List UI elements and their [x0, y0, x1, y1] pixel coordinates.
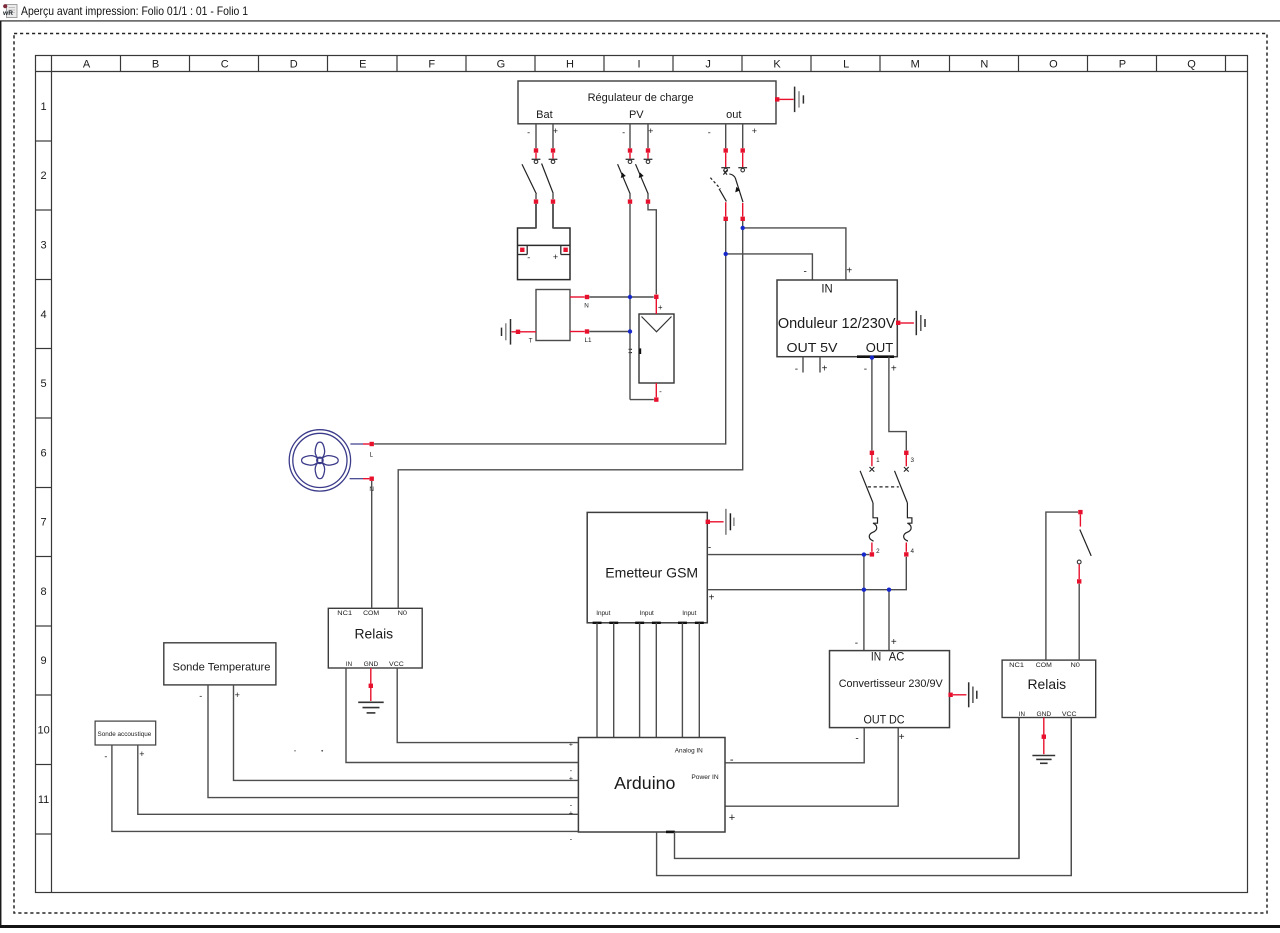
wire acoustic sensor - to Arduino	[104, 745, 578, 831]
svg-text:N: N	[980, 59, 988, 71]
wire Bat+ switch to battery	[552, 204, 554, 229]
inverter OUT 5V stubs	[795, 357, 828, 375]
svg-text:2: 2	[876, 548, 880, 555]
earth ground at regulator output	[775, 87, 803, 113]
svg-text:+: +	[553, 252, 558, 262]
row header numbers 1-11	[36, 101, 52, 834]
svg-text:-: -	[864, 364, 867, 375]
fan motor M1	[289, 430, 350, 491]
svg-text:2: 2	[41, 170, 47, 182]
switch Q1 pole Bat-	[522, 124, 540, 228]
svg-text:Arduino: Arduino	[614, 773, 675, 793]
svg-text:NC1: NC1	[337, 610, 352, 617]
svg-text:10: 10	[37, 725, 49, 737]
svg-text:COM: COM	[363, 610, 379, 617]
svg-text:+: +	[752, 126, 757, 136]
wire relay K2 VCC riser	[1070, 718, 1072, 876]
svg-text:Sonde Temperature: Sonde Temperature	[173, 661, 271, 673]
wire GSM- to breaker pole 2 and converter IN-	[708, 554, 869, 556]
inverter box Onduleur 12/230V	[777, 265, 897, 356]
junction out-	[724, 252, 728, 256]
svg-text:O: O	[1049, 59, 1058, 71]
svg-text:OUT 5V: OUT 5V	[787, 340, 838, 355]
svg-text:-: -	[804, 267, 807, 278]
svg-text:Input: Input	[640, 610, 654, 617]
svg-text:L: L	[843, 59, 849, 71]
column header letters A-Q	[83, 56, 1226, 72]
svg-text:-: -	[104, 752, 107, 762]
Arduino box	[578, 738, 725, 833]
svg-text:4: 4	[41, 309, 47, 321]
svg-text:K: K	[773, 59, 781, 71]
switch Q2 pole PV-	[618, 124, 635, 204]
charge regulator U1 box	[518, 81, 776, 124]
node N transformer output	[570, 295, 654, 310]
svg-text:NC1: NC1	[1009, 662, 1024, 669]
junction PV-/L1	[628, 329, 632, 333]
converter OUT- wire to Arduino	[725, 728, 864, 766]
svg-text:-: -	[527, 252, 530, 262]
svg-text:L1: L1	[584, 337, 592, 344]
svg-text:D: D	[290, 59, 298, 71]
svg-text:+: +	[235, 690, 240, 700]
breaker mechanical link (dashed)	[868, 486, 899, 488]
temperature sensor box	[164, 643, 276, 685]
svg-text:+: +	[729, 812, 735, 824]
svg-text:VCC: VCC	[1062, 711, 1077, 718]
cable marker ticks	[629, 348, 632, 350]
relay K1 box	[328, 608, 422, 668]
earth ground at GSM emitter	[706, 509, 734, 535]
svg-text:+: +	[648, 126, 653, 136]
svg-text:+: +	[709, 593, 715, 604]
svg-text:M: M	[911, 59, 920, 71]
svg-text:wR: wR	[2, 10, 13, 17]
svg-text:G: G	[497, 59, 506, 71]
svg-text:Aperçu avant impression: Folio: Aperçu avant impression: Folio 01/1 : 01…	[21, 4, 248, 18]
svg-text:GND: GND	[364, 661, 379, 668]
svg-text:F: F	[428, 59, 435, 71]
GSM emitter box	[587, 512, 707, 622]
svg-text:-: -	[795, 364, 798, 375]
svg-text:6: 6	[41, 447, 47, 459]
svg-text:-: -	[708, 127, 711, 137]
svg-text:1: 1	[41, 101, 47, 113]
svg-text:-: -	[730, 754, 734, 766]
stray dots	[294, 750, 296, 752]
fan terminal N	[350, 477, 375, 494]
svg-text:-: -	[199, 691, 202, 701]
svg-text:IN: IN	[346, 661, 352, 668]
wire relay K1 IN to Arduino	[346, 668, 578, 763]
svg-text:Relais: Relais	[1028, 676, 1067, 692]
svg-text:B: B	[152, 59, 159, 71]
svg-text:Convertisseur 230/9V: Convertisseur 230/9V	[839, 678, 943, 690]
svg-text:P: P	[1119, 59, 1126, 71]
svg-text:-: -	[570, 803, 573, 810]
svg-text:11: 11	[38, 794, 49, 806]
switch Q2 pole PV+	[636, 124, 657, 294]
wire out- net (to inverter IN- and fan L)	[374, 221, 726, 444]
svg-text:C: C	[221, 59, 229, 71]
svg-text:Sonde accoustique: Sonde accoustique	[98, 731, 152, 738]
svg-text:T: T	[529, 338, 533, 345]
svg-text:+: +	[891, 364, 897, 375]
svg-text:IN: IN	[1019, 711, 1025, 718]
svg-text:Emetteur GSM: Emetteur GSM	[605, 564, 698, 580]
svg-text:A: A	[83, 59, 91, 71]
svg-text:E: E	[359, 59, 366, 71]
svg-text:+: +	[822, 364, 828, 375]
svg-text:Onduleur 12/230V: Onduleur 12/230V	[778, 316, 896, 332]
wire temp sensor + to Arduino	[234, 685, 579, 781]
svg-text:-: -	[622, 128, 625, 138]
svg-text:+: +	[899, 732, 905, 743]
solar panel - terminal	[630, 383, 662, 402]
Arduino bottom wire to relay2 IN	[675, 718, 1020, 859]
svg-text:I: I	[637, 59, 640, 71]
transformer T1 box	[536, 290, 570, 341]
svg-text:-: -	[570, 768, 573, 775]
solar panel PV1	[639, 314, 674, 383]
app icon	[2, 4, 17, 17]
inverter OUT+ wire to breaker pole 3	[889, 357, 906, 451]
node L1 transformer output	[570, 329, 630, 344]
wire out+ net (to inverter IN+ and relay N0 riser)	[398, 221, 743, 608]
svg-text:Input: Input	[596, 610, 610, 617]
svg-text:4: 4	[911, 548, 915, 555]
solar panel + terminal	[654, 295, 663, 314]
converter box Convertisseur 230/9V	[830, 637, 950, 728]
inverter OUT- wire to breaker pole 1	[864, 355, 874, 450]
wire relay K2 IN riser	[1018, 718, 1020, 859]
svg-text:N0: N0	[398, 610, 408, 617]
svg-text:OUT: OUT	[866, 340, 893, 355]
wire relay K1 VCC to Arduino	[397, 668, 578, 743]
earth ground at converter	[948, 682, 976, 707]
circuit breaker 2P pole 1-2	[860, 451, 880, 557]
svg-text:Régulateur de charge: Régulateur de charge	[588, 92, 694, 104]
junction PV-/N	[628, 295, 632, 299]
svg-text:IN: IN	[821, 281, 832, 295]
converter OUT+ wire to Arduino	[725, 728, 905, 824]
earth ground at transformer T	[502, 319, 537, 345]
svg-text:8: 8	[41, 586, 47, 598]
wire Bat- switch to battery	[535, 204, 537, 229]
earth ground at relay K1 GND	[358, 668, 384, 713]
svg-text:N0: N0	[1071, 662, 1081, 669]
svg-text:+: +	[846, 265, 852, 276]
wire PV- net	[629, 204, 631, 400]
svg-text:5: 5	[41, 378, 47, 390]
switch Q3 pole out+	[729, 124, 757, 221]
junction out+	[741, 226, 745, 230]
svg-text:7: 7	[41, 517, 47, 529]
svg-text:Bat: Bat	[536, 109, 553, 121]
svg-text:+: +	[139, 749, 144, 759]
svg-text:9: 9	[41, 655, 47, 667]
acoustic sensor box	[95, 721, 156, 745]
svg-text:out: out	[726, 109, 741, 121]
switch Q1 pole Bat+	[542, 124, 558, 228]
wire GSM+ to breaker pole 4 and converter IN+	[708, 557, 906, 590]
earth ground at relay K2 GND	[1032, 718, 1055, 764]
svg-text:-: -	[708, 543, 711, 554]
svg-text:+: +	[891, 637, 897, 648]
svg-text:-: -	[855, 734, 858, 745]
svg-text:COM: COM	[1036, 662, 1052, 669]
svg-text:Q: Q	[1187, 59, 1196, 71]
svg-text:OUT DC: OUT DC	[864, 715, 905, 727]
svg-text:AC: AC	[889, 651, 905, 663]
Arduino left pin labels	[569, 741, 573, 843]
svg-text:3: 3	[41, 239, 47, 251]
svg-text:1: 1	[876, 457, 880, 464]
svg-text:L: L	[369, 452, 373, 459]
svg-text:-: -	[855, 638, 858, 649]
svg-text:GND: GND	[1036, 711, 1051, 718]
circuit breaker 2P pole 3-4	[895, 451, 915, 557]
switch Q3 pole out-	[708, 124, 730, 221]
earth ground at inverter	[896, 311, 925, 335]
svg-text:IN: IN	[871, 651, 881, 663]
svg-text:Relais: Relais	[355, 626, 394, 642]
GSM input wires to Arduino	[597, 623, 699, 738]
Arduino bottom wire to relay2 VCC	[657, 718, 1072, 876]
svg-text:H: H	[566, 59, 574, 71]
fan terminal L	[350, 442, 374, 459]
svg-text:+: +	[658, 303, 663, 312]
window title bar	[0, 0, 1280, 21]
wire temp sensor - to Arduino	[199, 685, 578, 798]
svg-text:N: N	[584, 303, 589, 310]
wire acoustic sensor + to Arduino	[138, 745, 579, 814]
relay K2 contact switch	[1046, 510, 1091, 660]
svg-text:3: 3	[911, 457, 915, 464]
svg-text:VCC: VCC	[389, 661, 404, 668]
battery B1	[518, 228, 571, 280]
svg-text:Power IN: Power IN	[691, 774, 719, 781]
svg-text:Input: Input	[682, 610, 696, 617]
svg-text:PV: PV	[629, 109, 644, 121]
wire fan N to relay K1 COM	[371, 481, 373, 608]
relay K2 box	[1002, 660, 1096, 718]
svg-text:-: -	[527, 128, 530, 138]
svg-text:-: -	[570, 836, 573, 843]
svg-text:+: +	[569, 776, 573, 783]
svg-text:J: J	[705, 59, 711, 71]
svg-text:Analog IN: Analog IN	[675, 748, 703, 755]
svg-text:-: -	[659, 387, 662, 396]
